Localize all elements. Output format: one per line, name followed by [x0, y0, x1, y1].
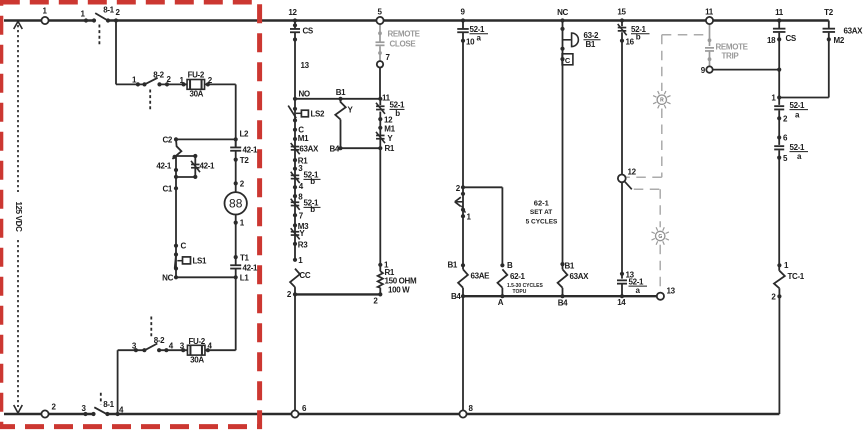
svg-text:NC: NC	[557, 8, 568, 17]
svg-text:B1: B1	[336, 88, 346, 97]
svg-text:R1: R1	[385, 144, 395, 153]
svg-text:52-1: 52-1	[629, 277, 645, 286]
svg-text:G: G	[658, 234, 662, 240]
svg-text:NO: NO	[299, 90, 310, 99]
svg-text:5 CYCLES: 5 CYCLES	[526, 219, 558, 226]
svg-text:13: 13	[667, 286, 676, 295]
svg-text:B1: B1	[586, 40, 596, 49]
svg-text:TC-1: TC-1	[788, 272, 805, 281]
svg-text:T2: T2	[240, 156, 250, 165]
svg-text:30A: 30A	[189, 90, 203, 99]
svg-text:R3: R3	[298, 240, 308, 249]
svg-text:b: b	[636, 33, 641, 42]
svg-text:42-1: 42-1	[243, 264, 259, 273]
svg-text:C2: C2	[162, 136, 172, 145]
svg-text:16: 16	[626, 37, 635, 46]
svg-text:11: 11	[705, 8, 714, 17]
svg-text:C1: C1	[162, 185, 172, 194]
svg-text:CC: CC	[299, 271, 310, 280]
svg-text:63AE: 63AE	[471, 272, 491, 281]
svg-text:18: 18	[767, 36, 776, 45]
svg-text:62-1: 62-1	[534, 198, 549, 207]
svg-text:REMOTE: REMOTE	[716, 42, 749, 51]
svg-text:CS: CS	[786, 34, 797, 43]
svg-text:FU-2: FU-2	[189, 337, 206, 346]
svg-text:b: b	[310, 205, 315, 214]
svg-text:10: 10	[466, 37, 475, 46]
svg-text:11: 11	[775, 8, 784, 17]
svg-text:LS2: LS2	[311, 110, 326, 119]
svg-text:NC: NC	[162, 274, 173, 283]
svg-text:125 VDC: 125 VDC	[14, 201, 23, 232]
svg-text:63AX: 63AX	[844, 27, 863, 36]
svg-text:8-2: 8-2	[154, 336, 165, 345]
svg-text:8-2: 8-2	[153, 71, 164, 80]
svg-text:TOPU: TOPU	[513, 289, 527, 295]
svg-text:63AX: 63AX	[299, 144, 319, 153]
svg-text:T1: T1	[240, 253, 250, 262]
svg-text:L1: L1	[240, 274, 250, 283]
svg-text:150 OHM: 150 OHM	[385, 277, 417, 286]
svg-text:B1: B1	[447, 261, 457, 270]
svg-text:REMOTE: REMOTE	[388, 30, 421, 39]
svg-text:12: 12	[628, 168, 637, 177]
svg-text:30A: 30A	[190, 356, 204, 365]
svg-text:B4: B4	[329, 144, 339, 153]
svg-text:14: 14	[617, 298, 626, 307]
svg-text:A: A	[498, 298, 504, 307]
svg-text:42-1: 42-1	[200, 162, 216, 171]
svg-text:12: 12	[288, 8, 297, 17]
svg-text:B4: B4	[558, 299, 568, 308]
svg-text:8-1: 8-1	[103, 6, 114, 15]
svg-text:63AX: 63AX	[570, 272, 590, 281]
svg-text:15: 15	[617, 8, 626, 17]
svg-text:B: B	[507, 261, 513, 270]
svg-text:C: C	[181, 242, 187, 251]
svg-text:63-2: 63-2	[584, 31, 600, 40]
svg-text:42-1: 42-1	[156, 162, 172, 171]
svg-text:SET AT: SET AT	[530, 209, 552, 216]
svg-text:42-1: 42-1	[243, 146, 259, 155]
svg-text:52-1: 52-1	[790, 143, 806, 152]
svg-text:CS: CS	[303, 27, 314, 36]
svg-text:8-1: 8-1	[103, 400, 114, 409]
svg-text:LS1: LS1	[193, 257, 208, 266]
svg-text:CLOSE: CLOSE	[390, 40, 417, 49]
svg-text:FU-2: FU-2	[188, 71, 205, 80]
svg-text:B4: B4	[451, 292, 461, 301]
svg-text:M1: M1	[384, 124, 395, 133]
svg-text:13: 13	[301, 61, 310, 70]
svg-text:L2: L2	[240, 130, 250, 139]
svg-text:b: b	[395, 109, 400, 118]
svg-text:b: b	[310, 177, 315, 186]
svg-text:M1: M1	[298, 134, 309, 143]
svg-text:100 W: 100 W	[388, 285, 410, 294]
svg-text:12: 12	[384, 115, 393, 124]
svg-text:52-1: 52-1	[790, 101, 806, 110]
svg-text:M2: M2	[834, 36, 845, 45]
svg-text:T2: T2	[824, 8, 834, 17]
svg-text:62-1: 62-1	[510, 272, 526, 281]
svg-text:B1: B1	[565, 261, 575, 270]
svg-text:TRIP: TRIP	[722, 52, 740, 61]
svg-text:88: 88	[229, 197, 243, 211]
